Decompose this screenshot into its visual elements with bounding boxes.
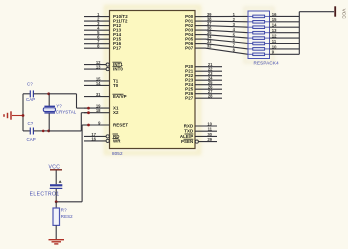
- node: crystal bottom junction: [42, 130, 50, 133]
- wire VCC bus vertical: [298, 12, 300, 55]
- wire RESPACK4 pin 12 to VCC bus: [270, 34, 300, 39]
- pin 23 P22: [185, 71, 222, 78]
- pin 1 P10/T: [84, 12, 128, 19]
- resistor R4 in RESPACK4: [248, 31, 270, 34]
- capacitor C3 ELECTRO (electrolytic): [30, 180, 63, 202]
- svg-text:X2: X2: [113, 110, 119, 115]
- svg-text:EA/VP: EA/VP: [113, 94, 127, 99]
- wire X2: [49, 113, 89, 131]
- svg-text:Y?: Y?: [56, 104, 62, 109]
- pin 10 RXD: [184, 122, 217, 129]
- wire RESPACK4 pin 15 to VCC bus: [270, 17, 300, 22]
- wire RESPACK4 pin 16 to VCC bus: [270, 12, 300, 17]
- wire RESPACK4 pin 10 to VCC bus: [270, 44, 300, 49]
- pin 3 P12: [84, 21, 122, 28]
- power symbol VCC (bar): [335, 6, 346, 19]
- svg-text:P07: P07: [185, 46, 194, 51]
- pin 30 ALE/P: [180, 132, 217, 139]
- pin 18 X2: [84, 108, 119, 115]
- svg-text:16: 16: [91, 136, 96, 141]
- resistor R5 in RESPACK4: [248, 37, 270, 40]
- pin 36 P03 / wire to RESPACK4 pin 4: [185, 26, 248, 33]
- pin 34 P05 / wire to RESPACK4 pin 6: [185, 35, 248, 44]
- op-amp U1: 8052 MCU body: [110, 11, 196, 149]
- pin 21 P20: [185, 62, 222, 69]
- wire to VCC power symbol: [299, 11, 334, 13]
- pin 5 P14: [84, 30, 122, 37]
- pin 8 P17: [84, 44, 122, 51]
- crystal Y1 (CRYSTAL): [43, 94, 77, 131]
- pin 33 P06 / wire to RESPACK4 pin 7: [185, 39, 248, 49]
- capacitor C2 (CAP, bottom): [23, 121, 49, 142]
- pin 14 T0: [84, 81, 119, 88]
- svg-text:CRYSTAL: CRYSTAL: [56, 109, 77, 114]
- svg-text:RESET: RESET: [113, 123, 128, 128]
- svg-text:R?: R?: [61, 207, 67, 212]
- svg-text:C?: C?: [28, 121, 34, 126]
- svg-text:RESPACK4: RESPACK4: [254, 61, 280, 66]
- wire X1: [49, 94, 89, 108]
- svg-text:18: 18: [96, 108, 101, 113]
- pin 24 P23: [185, 76, 222, 83]
- svg-text:8052: 8052: [112, 151, 123, 156]
- pin 17 RD: [84, 132, 120, 139]
- svg-text:28: 28: [208, 94, 213, 99]
- pin 26 P25: [185, 85, 222, 92]
- node RC junction: [55, 200, 58, 203]
- svg-text:VCC: VCC: [341, 9, 347, 20]
- pin 7 P16: [84, 39, 122, 46]
- pin 15 T1: [84, 76, 119, 83]
- pin 12 INT1: [84, 60, 123, 67]
- pin 16 WR: [84, 136, 121, 143]
- svg-text:16: 16: [272, 12, 277, 17]
- svg-text:10: 10: [272, 44, 277, 49]
- pin 27 P26: [185, 89, 222, 96]
- resistor R3 in RESPACK4: [248, 26, 270, 29]
- svg-text:RES2: RES2: [61, 214, 73, 219]
- pin 13 INT0: [84, 65, 123, 72]
- pin 4 P13: [84, 26, 122, 33]
- wire RESET to RC junction: [56, 125, 88, 202]
- pin 31 EA/VP: [84, 92, 127, 99]
- svg-text:31: 31: [96, 92, 101, 97]
- resistor R6 in RESPACK4: [248, 42, 270, 45]
- pin 39 P00 / wire to RESPACK4 pin 1: [185, 12, 248, 19]
- svg-text:INT0: INT0: [113, 67, 123, 72]
- svg-text:P17: P17: [113, 46, 122, 51]
- svg-text:P27: P27: [185, 96, 194, 101]
- svg-text:PSEN: PSEN: [181, 139, 193, 144]
- capacitor C1 (CAP, top): [23, 81, 49, 102]
- pin 9 RESET: [84, 121, 128, 128]
- ground (earth, bottom): [49, 240, 65, 244]
- node X1: [87, 107, 90, 110]
- svg-text:WR: WR: [113, 138, 121, 143]
- resistor R7 in RESPACK4: [248, 48, 270, 51]
- wire RESPACK4 pin 14 to VCC bus: [270, 23, 300, 28]
- resistor pack RP1 RESPACK4 body: [248, 11, 270, 59]
- svg-text:ELECTRO1: ELECTRO1: [30, 192, 60, 198]
- pin 11 TXD: [184, 127, 217, 134]
- svg-text:CAP: CAP: [27, 137, 36, 142]
- wire RESPACK4 pin 11 to VCC bus: [270, 39, 300, 44]
- svg-text:15: 15: [272, 17, 277, 22]
- pin 2 P11/T: [84, 17, 128, 24]
- ground (power ground, left): [4, 111, 23, 119]
- svg-text:C?: C?: [27, 81, 33, 86]
- svg-text:CAP: CAP: [26, 97, 35, 102]
- svg-text:32: 32: [207, 44, 212, 49]
- node: caps-ground junction: [22, 114, 25, 117]
- node X2: [87, 111, 90, 114]
- value label 8052: [112, 151, 123, 156]
- pin 37 P02 / wire to RESPACK4 pin 3: [185, 21, 248, 28]
- svg-text:14: 14: [272, 23, 277, 28]
- value label RESPACK4: [254, 61, 280, 66]
- node RESET pin: [87, 124, 90, 127]
- resistor R1 RES2: [53, 202, 73, 240]
- pin 35 P04 / wire to RESPACK4 pin 5: [185, 30, 248, 38]
- pin 19 X1: [84, 104, 119, 111]
- svg-text:29: 29: [207, 137, 212, 142]
- pin 22 P21: [185, 67, 222, 74]
- pin 6 P15: [84, 35, 122, 42]
- wire cap rail vertical: [22, 94, 24, 131]
- svg-text:11: 11: [272, 39, 277, 44]
- scan halo (decorative): [106, 7, 273, 153]
- node: crystal top junction: [47, 92, 50, 95]
- wire RESPACK4 pin 13 to VCC bus: [270, 28, 300, 33]
- pin 28 P27: [185, 94, 222, 101]
- power symbol VCC (reset circuit): [49, 164, 63, 184]
- pin 25 P24: [185, 80, 222, 87]
- pin 38 P01 / wire to RESPACK4 pin 2: [185, 17, 248, 24]
- resistor R1 in RESPACK4: [248, 15, 270, 18]
- resistor R2 in RESPACK4: [248, 21, 270, 24]
- pin 29 PSEN: [181, 137, 217, 144]
- svg-text:12: 12: [272, 34, 277, 39]
- wire RESPACK4 pin 9 to VCC bus: [270, 50, 300, 55]
- svg-text:13: 13: [96, 65, 101, 70]
- svg-text:13: 13: [272, 28, 277, 33]
- svg-text:14: 14: [96, 81, 101, 86]
- svg-text:T0: T0: [113, 83, 119, 88]
- resistor R8 in RESPACK4: [248, 53, 270, 56]
- pin 32 P07 / wire to RESPACK4 pin 8: [185, 44, 248, 55]
